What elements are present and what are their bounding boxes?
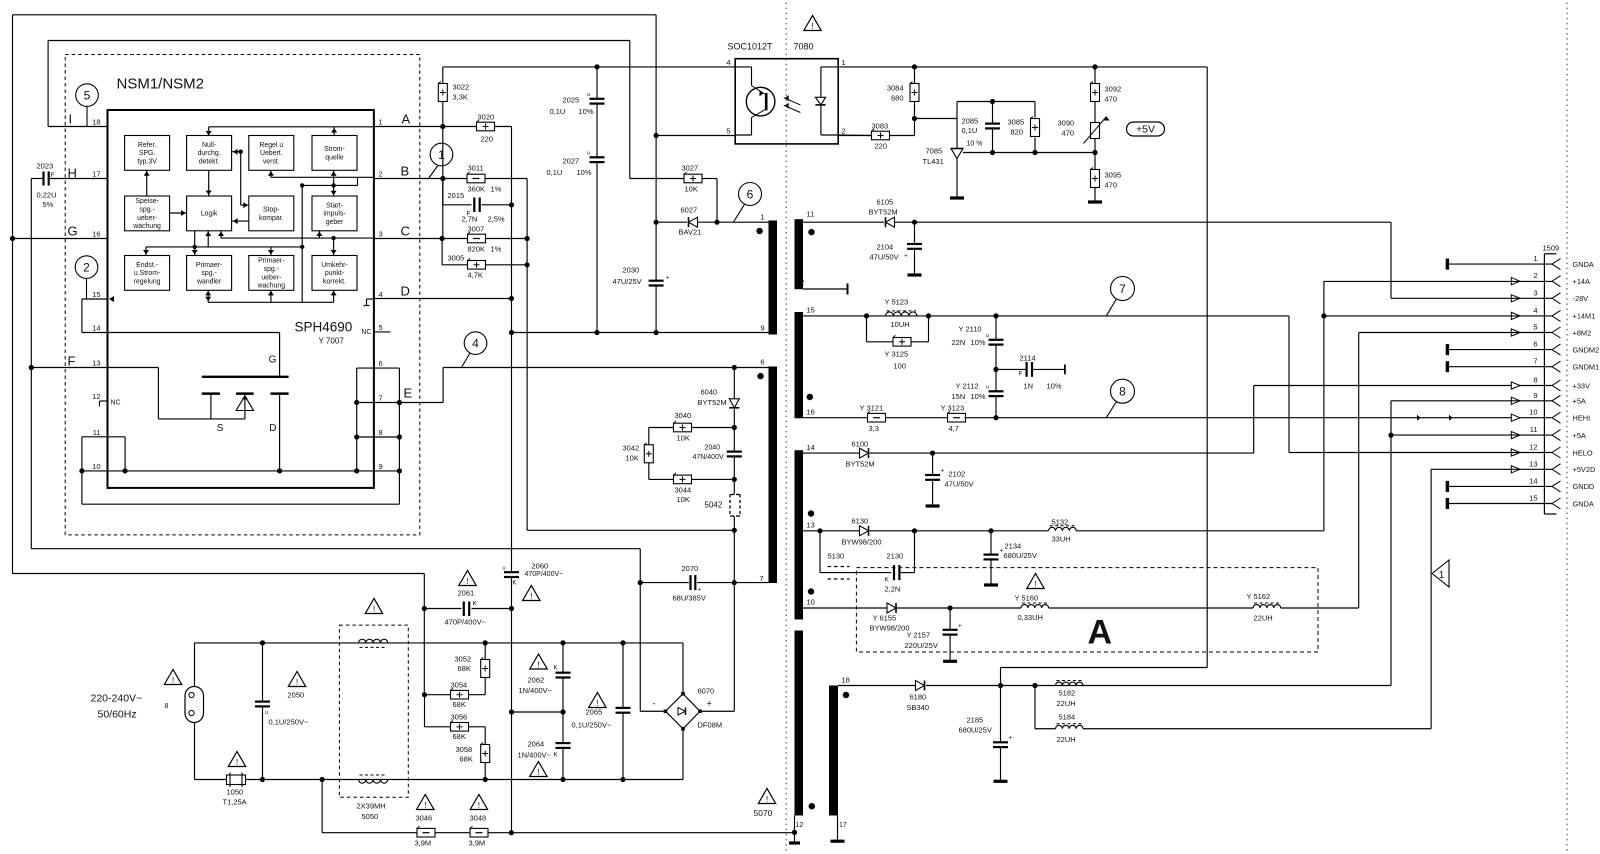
svg-text:8: 8 (379, 428, 383, 437)
svg-text:3022: 3022 (453, 83, 470, 92)
svg-text:7: 7 (1119, 282, 1126, 296)
connector pin 5 +8M2 (1511, 323, 1591, 339)
dashed region A box (856, 568, 1318, 652)
svg-text:11: 11 (807, 210, 815, 219)
svg-text:Y 7007: Y 7007 (319, 337, 345, 346)
svg-text:!: ! (172, 675, 174, 685)
resistor 3046 (415, 814, 436, 848)
svg-text:durchg.: durchg. (198, 150, 221, 157)
IC SPH4690 box U1 (108, 110, 374, 488)
svg-text:Strom-: Strom- (324, 146, 345, 153)
svg-text:10K: 10K (685, 185, 698, 194)
connector pin 13 +5V2D (1511, 459, 1595, 475)
svg-text:TL431: TL431 (923, 157, 944, 166)
svg-text:punkt-: punkt- (325, 270, 344, 277)
capacitor 2104 (870, 222, 923, 275)
capacitor 2050 (255, 643, 309, 780)
svg-text:GNDM1: GNDM1 (1573, 363, 1600, 372)
svg-text:!: ! (478, 800, 480, 810)
svg-text:3: 3 (379, 230, 383, 239)
wire H-net vertical (30, 179, 32, 549)
transformer phase dot pin6 (757, 373, 763, 379)
svg-text:3040: 3040 (675, 411, 692, 420)
svg-text:9: 9 (1533, 391, 1537, 400)
svg-text:16: 16 (807, 408, 815, 417)
svg-text:Uebert.: Uebert. (260, 150, 283, 157)
svg-text:kompar.: kompar. (259, 215, 284, 222)
diode Y6155 BYW98/200 (870, 603, 910, 633)
svg-text:regelung: regelung (134, 278, 161, 285)
svg-text:HELO: HELO (1573, 448, 1593, 457)
svg-text:Primaer-: Primaer- (258, 258, 284, 265)
svg-text:+: + (666, 275, 670, 282)
svg-text:!: ! (424, 800, 426, 810)
svg-text:10: 10 (92, 462, 100, 471)
svg-text:3052: 3052 (455, 655, 472, 664)
circle ref 4 (464, 332, 487, 355)
pin 13 rail +14A (803, 281, 1324, 533)
resistor 3020 (477, 113, 495, 144)
svg-text:3,9M: 3,9M (469, 839, 486, 848)
svg-text:680: 680 (891, 94, 904, 103)
pin 15 rail to +14M1 (803, 313, 1289, 452)
svg-text:verst.: verst. (263, 158, 280, 165)
pin 12 NC stub (100, 400, 121, 407)
IC internal wiring (143, 127, 374, 302)
svg-text:22UH: 22UH (1057, 735, 1076, 744)
svg-text:47U/50V: 47U/50V (945, 480, 974, 489)
svg-text:3048: 3048 (470, 814, 487, 823)
opto pin2 wire (838, 134, 871, 137)
svg-text:14: 14 (807, 443, 815, 452)
svg-text:DF08M: DF08M (698, 721, 723, 730)
capacitor 2070 (673, 564, 706, 603)
svg-text:BYW98/200: BYW98/200 (870, 624, 910, 633)
IC pin ladder pins 6-9 (354, 368, 402, 504)
svg-text:3,9M: 3,9M (415, 839, 432, 848)
svg-text:10 %: 10 % (967, 141, 983, 148)
svg-text:15: 15 (807, 306, 815, 315)
svg-text:3,3K: 3,3K (453, 93, 468, 102)
svg-text:!: ! (811, 21, 813, 31)
svg-text:360K: 360K (468, 185, 486, 194)
svg-text:wachung: wachung (257, 283, 286, 290)
x424 vertical to divider (423, 609, 425, 695)
warning triangle 3046 (417, 795, 434, 810)
svg-text:+: + (941, 468, 945, 475)
svg-text:!: ! (537, 767, 539, 777)
svg-text:2050: 2050 (288, 691, 305, 700)
svg-text:2070: 2070 (682, 564, 699, 573)
svg-text:T1,25A: T1,25A (223, 798, 247, 807)
svg-text:5: 5 (1533, 323, 1537, 332)
connector pin 12 HELO (1511, 443, 1593, 459)
labels pins 18 17 (839, 676, 850, 830)
svg-text:68K: 68K (460, 755, 473, 764)
svg-text:470P/400V~: 470P/400V~ (525, 571, 564, 578)
svg-text:3092: 3092 (1105, 85, 1122, 94)
choke 5050 winding top (359, 639, 388, 643)
svg-text:820K: 820K (468, 245, 486, 254)
circle ref 8 (1111, 379, 1135, 403)
svg-text:11: 11 (1530, 425, 1538, 434)
svg-text:BYT52M: BYT52M (869, 208, 898, 217)
svg-text:12: 12 (92, 392, 100, 401)
opto drive row from pin1 node (443, 64, 735, 69)
svg-text:2,5%: 2,5% (488, 215, 505, 224)
transformer T primary bar winding 6-7 (769, 367, 778, 584)
svg-text:Start-: Start- (326, 202, 343, 209)
connector pin 4 +14M1 (1511, 306, 1595, 322)
warning triangle mains (164, 670, 181, 685)
trimmer 3090 (1058, 111, 1110, 153)
svg-text:+: + (1009, 735, 1013, 742)
svg-text:6027: 6027 (681, 206, 698, 215)
svg-text:+: + (958, 623, 962, 630)
svg-text:Y 6155: Y 6155 (873, 614, 897, 623)
block Regel-Uebert (249, 136, 294, 171)
svg-text:12: 12 (1529, 443, 1537, 452)
resistor 3085 (1008, 102, 1040, 153)
svg-text:11: 11 (93, 428, 101, 437)
capacitor 2030 (613, 266, 670, 287)
capacitor 2114 branch (993, 354, 1065, 391)
svg-text:3090: 3090 (1058, 119, 1075, 128)
resistor Y3123 (941, 404, 966, 434)
diode 6130 BYW98/200 (842, 517, 882, 547)
svg-text:1: 1 (1439, 570, 1445, 581)
resistor Y3125 parallel (867, 316, 929, 371)
pin row 15 wire (82, 296, 114, 333)
svg-text:6: 6 (1533, 340, 1537, 349)
svg-text:!: ! (296, 677, 298, 687)
svg-text:6040: 6040 (701, 388, 718, 397)
capacitor 2102 (925, 453, 974, 506)
inductor Y5160 (1015, 594, 1049, 623)
svg-text:ueber-: ueber- (137, 215, 157, 222)
svg-text:-28V: -28V (1573, 294, 1589, 303)
pin row 17 wire with capacitor 2023 (31, 162, 107, 210)
wire x734 to pin7 node (732, 530, 737, 711)
svg-text:3046: 3046 (416, 814, 433, 823)
fuse 1050 (223, 773, 247, 807)
svg-text:3085: 3085 (1008, 118, 1025, 127)
svg-text:Regel u: Regel u (259, 142, 283, 149)
svg-text:NSM1/NSM2: NSM1/NSM2 (117, 76, 205, 93)
capacitor 2185 (959, 686, 1013, 782)
svg-text:Umkehr-: Umkehr- (321, 262, 347, 269)
block Null-durchg (187, 136, 232, 171)
transformer T primary bar winding 1-9 (769, 221, 778, 335)
divider resistor 3056 (425, 695, 486, 741)
wire +14A riser (1321, 281, 1552, 318)
svg-text:9: 9 (379, 462, 383, 471)
pin9 winding row (509, 330, 769, 335)
bridge connections (640, 549, 734, 780)
svg-text:spg.-: spg.- (139, 206, 154, 213)
svg-text:spg.-: spg.- (264, 266, 279, 273)
svg-text:3027: 3027 (682, 164, 699, 173)
svg-text:2060: 2060 (532, 562, 549, 571)
svg-text:68K: 68K (453, 732, 466, 741)
warning triangle 2061 (459, 571, 476, 586)
svg-text:1509: 1509 (1543, 244, 1560, 253)
svg-text:A: A (402, 112, 411, 127)
capacitor 2027 (547, 151, 605, 333)
svg-text:220: 220 (875, 142, 888, 151)
svg-text:korrekt.: korrekt. (323, 278, 346, 285)
svg-text:Y 2157: Y 2157 (907, 631, 931, 640)
svg-text:spg.-: spg.- (201, 270, 216, 277)
capacitor 2015 (443, 179, 514, 224)
svg-text:470: 470 (1105, 95, 1118, 104)
svg-text:+5V2D: +5V2D (1573, 465, 1596, 474)
capacitor 2064 (518, 712, 571, 780)
phase dot pin18 (843, 692, 849, 698)
svg-text:F: F (1019, 371, 1023, 378)
svg-text:G: G (68, 224, 78, 239)
svg-text:12: 12 (796, 822, 804, 829)
block Stop-kompar (249, 196, 294, 231)
resistor 3083 (838, 122, 914, 151)
svg-text:!: ! (466, 576, 468, 586)
transformer phase dot pin1 (756, 228, 762, 234)
resistor Y3121 (860, 404, 886, 434)
divider resistor 3058 (456, 727, 490, 780)
diode 6105 BYT52M (869, 198, 898, 228)
snubber bottom rail (527, 528, 737, 533)
svg-text:Y 3125: Y 3125 (885, 350, 909, 359)
svg-text:5130: 5130 (828, 552, 845, 561)
svg-text:ueber-: ueber- (261, 274, 281, 281)
svg-text:3007: 3007 (468, 225, 485, 234)
svg-text:5: 5 (379, 323, 383, 332)
svg-text:0,1U: 0,1U (550, 107, 566, 116)
circle ref 6 (739, 183, 762, 206)
svg-text:K: K (885, 577, 890, 584)
svg-text:2040: 2040 (705, 445, 721, 452)
svg-text:7080: 7080 (794, 42, 814, 52)
block Speise-spg (125, 196, 170, 231)
svg-text:Y 3121: Y 3121 (860, 404, 884, 413)
connector pin 8 +33V (1511, 376, 1590, 392)
capacitor Y2157 (905, 608, 963, 661)
svg-text:8: 8 (1119, 385, 1126, 399)
svg-text:68U/385V: 68U/385V (673, 594, 706, 603)
svg-text:12: 12 (796, 278, 804, 287)
diode 6100 BYT52M (846, 440, 875, 469)
block Primaer-spg-wandler (187, 256, 232, 291)
svg-text:7: 7 (379, 394, 383, 403)
svg-text:4,7: 4,7 (949, 424, 959, 433)
capacitor Y2110 (952, 316, 1004, 370)
bottom rail y548 (31, 548, 640, 550)
standby transformer bar winding 18-17 (829, 686, 838, 816)
svg-text:5070: 5070 (754, 808, 773, 818)
svg-text:Speise-: Speise- (135, 198, 158, 205)
resistor 3007 (468, 225, 502, 254)
svg-text:!: ! (766, 794, 768, 804)
svg-text:1N: 1N (1024, 382, 1034, 391)
svg-text:2085: 2085 (962, 117, 979, 126)
opto feedback +5V rail (838, 64, 1207, 667)
capacitor 2025 (550, 67, 605, 157)
svg-text:F: F (51, 172, 55, 179)
svg-text:1: 1 (1533, 254, 1537, 263)
capacitor 2062 (519, 643, 571, 712)
svg-text:50/60Hz: 50/60Hz (98, 709, 137, 721)
resistor 3027 (630, 164, 717, 223)
pin row 13 wire (29, 365, 159, 419)
wire +5V2D riser (1431, 469, 1552, 728)
primary return wire 3046 3048 row (322, 830, 794, 835)
wire HELO row (1289, 452, 1552, 454)
warning triangle 2060 (523, 586, 540, 601)
mains live wire top (195, 640, 684, 686)
svg-text:2030: 2030 (623, 266, 640, 275)
diode 6040 BYT52M (698, 368, 740, 428)
block Umkehr-punkt (312, 256, 357, 291)
warning triangle 2050 (288, 672, 305, 687)
mains neutral wire bottom (195, 723, 684, 833)
pin 16 rail HEHI (803, 415, 1552, 421)
reg bottom rail (963, 150, 1098, 155)
svg-text:G: G (269, 355, 277, 366)
svg-text:9: 9 (760, 324, 764, 333)
svg-text:47N/400V: 47N/400V (693, 454, 724, 461)
dashed separator primary-secondary (785, 3, 787, 853)
svg-text:4,7K: 4,7K (468, 271, 483, 280)
IC pin 4 stub tick (364, 299, 374, 306)
transformer lower pin12 ground (789, 816, 800, 844)
svg-text:4: 4 (726, 58, 730, 67)
svg-text:18: 18 (92, 118, 100, 127)
svg-text:100: 100 (894, 362, 907, 371)
svg-text:u: u (986, 385, 989, 391)
warning triangle fuse (228, 752, 245, 767)
labels pins 15 16 (807, 306, 815, 417)
circle ref 1 (430, 143, 453, 166)
connector pin 7 GNDM1 (1447, 357, 1599, 373)
svg-text:3020: 3020 (478, 113, 495, 122)
capacitor 2060 (503, 562, 564, 587)
resistor 3005 (442, 239, 530, 280)
svg-text:470P/400V~: 470P/400V~ (445, 618, 487, 627)
svg-text:1050: 1050 (227, 788, 244, 797)
svg-text:220U/25V: 220U/25V (905, 641, 938, 650)
svg-text:D: D (269, 423, 276, 434)
svg-text:1: 1 (379, 118, 383, 127)
svg-text:15: 15 (1529, 494, 1537, 503)
svg-text:1%: 1% (491, 185, 502, 194)
warning triangle 3048 (470, 795, 487, 810)
choke labels (357, 802, 386, 822)
phase dots pins 13 10 (808, 510, 814, 594)
snubber capacitor 2040 (693, 428, 742, 480)
svg-text:2064: 2064 (528, 740, 545, 749)
svg-text:A: A (1088, 614, 1113, 652)
svg-text:+5A: +5A (1573, 431, 1586, 440)
diode 6027 BAV21 (654, 206, 769, 237)
transformer secondary bar winding 15-16 (795, 312, 804, 418)
resistor 3011 (467, 164, 502, 194)
svg-text:Logik: Logik (201, 211, 218, 218)
svg-text:Y 5162: Y 5162 (1247, 592, 1271, 601)
connector pin 15 GNDA (1447, 494, 1594, 510)
svg-text:470: 470 (1105, 181, 1118, 190)
svg-text:7: 7 (1533, 357, 1537, 366)
svg-text:13: 13 (92, 359, 100, 368)
svg-text:1: 1 (438, 148, 445, 162)
svg-text:+5A: +5A (1573, 397, 1586, 406)
svg-text:2062: 2062 (528, 676, 545, 685)
svg-text:220: 220 (481, 135, 494, 144)
warning triangle 2065 (589, 693, 606, 708)
pin row 14 wire (82, 332, 280, 334)
resistor 3095 (1088, 153, 1121, 203)
divider chain 3052 (455, 643, 490, 695)
mains plug (165, 687, 204, 723)
left pin numbers (92, 118, 100, 471)
svg-text:Refer.: Refer. (138, 142, 156, 149)
svg-text:8: 8 (1533, 376, 1537, 385)
svg-text:3044: 3044 (675, 486, 692, 495)
svg-text:+8M2: +8M2 (1573, 328, 1592, 337)
svg-text:47U/25V: 47U/25V (613, 277, 642, 286)
wire -28V row (1391, 297, 1552, 299)
svg-text:u: u (986, 333, 989, 339)
svg-text:3005: 3005 (448, 254, 465, 263)
connector pin 2 +14A (1511, 271, 1590, 287)
svg-text:2023: 2023 (37, 162, 54, 171)
svg-text:3: 3 (1533, 288, 1537, 297)
svg-text:3042: 3042 (623, 444, 640, 453)
node A row with resistor 3020 (374, 124, 512, 129)
svg-text:Y 3123: Y 3123 (941, 404, 965, 413)
svg-text:1: 1 (842, 58, 846, 67)
svg-text:6: 6 (760, 358, 764, 367)
svg-text:!: ! (236, 757, 238, 767)
svg-text:K: K (513, 581, 517, 587)
svg-text:5042: 5042 (705, 501, 723, 510)
svg-text:2065: 2065 (586, 708, 603, 717)
node letters right (401, 112, 413, 401)
svg-text:15N: 15N (952, 392, 966, 401)
pin10 row (82, 468, 357, 473)
svg-text:B: B (401, 164, 410, 179)
svg-text:SPH4690: SPH4690 (295, 320, 353, 335)
svg-text:6130: 6130 (852, 517, 869, 526)
svg-text:detekt.: detekt. (199, 158, 220, 165)
svg-text:5182: 5182 (1059, 688, 1076, 697)
snubber resistor 3044 (649, 473, 737, 504)
pin 14 rail to +33V (803, 386, 1552, 456)
svg-text:!: ! (596, 698, 598, 708)
svg-text:I: I (69, 112, 73, 127)
svg-text:BYT52M: BYT52M (846, 460, 875, 469)
svg-text:10: 10 (807, 598, 815, 607)
svg-text:K: K (473, 601, 478, 608)
svg-text:Y 2110: Y 2110 (959, 325, 982, 334)
svg-text:+: + (707, 699, 712, 709)
node C row with resistor 3007 (374, 179, 530, 242)
inductor Y5162 (1247, 592, 1281, 623)
spark gap 5042 (705, 479, 741, 530)
svg-text:7085: 7085 (926, 147, 943, 156)
svg-text:68K: 68K (453, 700, 466, 709)
svg-text:2185: 2185 (967, 716, 984, 725)
block Start-impuls (312, 196, 357, 231)
